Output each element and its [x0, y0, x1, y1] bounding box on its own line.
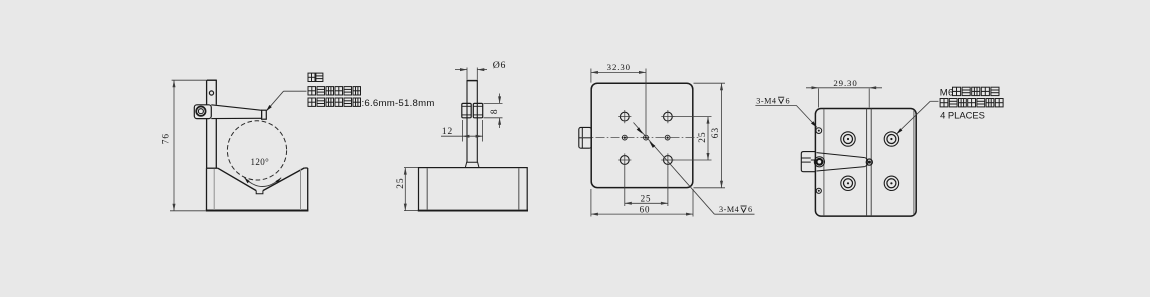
view3 left tab — [579, 127, 591, 148]
svg-text:25: 25 — [698, 132, 708, 143]
svg-text:M6: M6 — [940, 88, 954, 99]
view4 clamp arm fork block — [801, 152, 815, 172]
view4 shaft hidden lines — [867, 109, 872, 217]
view2 base inner edge left — [426, 168, 428, 210]
view4 clamp arm body — [817, 153, 868, 171]
view2 shaft base flare — [465, 162, 479, 167]
view3 dim 63 line — [720, 83, 723, 188]
view3 counterbore hole bottom-left — [618, 153, 631, 166]
view4 counterbore hole bottom-left — [841, 176, 855, 190]
view4 base plate outline — [815, 109, 916, 217]
view3 M4 hole left — [622, 135, 627, 140]
view3 counterbore hole top-left — [618, 110, 631, 123]
svg-text:6: 6 — [786, 96, 790, 105]
view3 M4 hole right — [665, 135, 670, 140]
view2 dim 25 extensions — [404, 168, 418, 211]
view1 vertical post — [207, 80, 217, 168]
view3 counterbore hole bottom-right — [661, 153, 674, 166]
view1 V-block body — [206, 168, 309, 211]
view2 arm hub left half — [462, 103, 471, 117]
view3 dim 63 extensions — [694, 83, 726, 188]
view4 leader 3-M4 depth 6 — [755, 105, 817, 127]
view1 dim 76 line — [173, 80, 176, 211]
svg-text:63: 63 — [711, 127, 721, 138]
view1 dim 76 extension top — [172, 79, 206, 81]
view4 arm pivot screw — [814, 157, 824, 167]
view4 dim 29.30 line — [806, 86, 882, 89]
view1 V-block inner edge right — [300, 169, 302, 210]
view1 V-groove relief notch — [256, 191, 263, 194]
svg-text:29.30: 29.30 — [833, 78, 857, 88]
view2 shaft — [467, 81, 478, 163]
view2 dim 12 extensions — [462, 120, 482, 142]
view1 post hole — [209, 91, 213, 95]
view3 dim 25 right line — [707, 117, 710, 160]
view4 note line1 M6 countersunk holes — [940, 87, 999, 98]
view4 leader M6 counterbore — [896, 101, 938, 134]
view3 counterbore hole top-right — [661, 110, 674, 123]
svg-text:60: 60 — [640, 204, 651, 214]
view1 workpiece dashed circle — [227, 121, 286, 180]
view1 leader to clamp tip — [266, 91, 307, 111]
view1 clamp arm pivot block — [194, 105, 211, 119]
svg-text:3-M4: 3-M4 — [719, 205, 739, 214]
svg-text:6: 6 — [748, 205, 752, 214]
view3 dim 32.30 line — [591, 71, 646, 74]
view4 M4 hole bottom — [816, 188, 821, 193]
view4 inner edge near left — [823, 109, 825, 216]
view4 counterbore hole top-left — [841, 132, 855, 146]
view4 M4 hole top — [816, 128, 822, 134]
view4 dim 29.30 extensions — [819, 89, 870, 108]
view2 dim 8 extensions — [484, 103, 503, 117]
svg-text:4 PLACES: 4 PLACES — [940, 110, 985, 121]
view3 dim 25 bottom line — [625, 202, 668, 205]
view1 note line3 clamp diameter range — [308, 98, 435, 109]
svg-text:12: 12 — [442, 127, 453, 137]
view3 base plate outline — [591, 83, 693, 187]
svg-text:Ø6: Ø6 — [493, 60, 506, 71]
view1 angle arc 120 deg — [244, 177, 281, 186]
svg-text:32.30: 32.30 — [607, 62, 631, 72]
view4 counterbore hole top-right — [884, 132, 898, 146]
view4 leader text 3-M4 depth 6 — [756, 96, 789, 105]
view3 M4 hole center — [644, 135, 649, 140]
view2 dim 8 line — [498, 94, 501, 129]
svg-text:120°: 120° — [250, 157, 269, 167]
view2 arm hub right half — [473, 103, 482, 117]
svg-text:25: 25 — [641, 194, 652, 204]
view1 V-block inner edge left — [213, 169, 215, 210]
view4 arm tip screw — [866, 159, 872, 165]
svg-text:76: 76 — [162, 133, 172, 144]
view3 leader text 3-M4 depth 6 — [719, 205, 752, 214]
view2 dim 12 line — [441, 135, 483, 138]
view2 base inner edge right — [518, 168, 520, 210]
view3 dim 25 right extensions — [673, 117, 712, 160]
view3 dim 32.30 extensions — [591, 69, 646, 136]
view1 clamp arm — [211, 105, 261, 119]
view2 base block — [418, 168, 528, 211]
svg-text:3-M4: 3-M4 — [756, 96, 776, 105]
view3 dim 25 bottom extensions — [625, 167, 668, 207]
view3 dim 60 extensions — [591, 189, 693, 217]
view3 dim 60 line — [591, 213, 693, 216]
view3 horizontal centerline — [581, 137, 700, 139]
view4 inner edge near right — [913, 111, 915, 215]
svg-text::6.6mm-51.8mm: :6.6mm-51.8mm — [362, 98, 435, 109]
view1 note line2 used to fix clamping — [308, 87, 316, 95]
view2 dim dia6 line — [455, 68, 487, 71]
view1 dim 76 extension bottom — [170, 210, 206, 212]
view2 dim dia6 extensions — [467, 68, 477, 80]
view1 clamp tip pad — [262, 110, 267, 119]
svg-text:25: 25 — [396, 178, 406, 189]
view2 dim 25 line — [404, 168, 407, 211]
svg-text:8: 8 — [490, 109, 500, 115]
view1 note line1 yabi (press arm) — [308, 73, 315, 81]
view4 note line2 for fixing the mount — [940, 99, 948, 107]
view3 leader 3-M4 depth 6 — [634, 123, 755, 215]
view4 counterbore hole bottom-right — [884, 176, 898, 190]
